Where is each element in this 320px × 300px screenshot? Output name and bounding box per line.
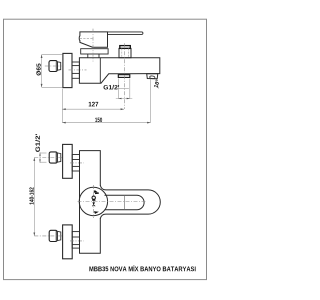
aerator outlet ellipse [150, 76, 156, 79]
label G1/2 side view [104, 85, 120, 90]
center pin arrow [92, 202, 95, 204]
diverter centerline [124, 43, 126, 109]
bottom rib centerline [70, 240, 84, 242]
dim G1/2 front ext bottom [40, 161, 47, 163]
top inlet hex nut [49, 152, 57, 163]
escutcheon flange (side) [63, 53, 72, 87]
rib line 2 [72, 72, 79, 74]
rib line 1 [72, 65, 79, 67]
bottom eccentric ribs [72, 232, 79, 249]
dim Ø65 arrows [41, 55, 43, 88]
dim 127 label [89, 102, 99, 107]
handle grip stadium [105, 195, 145, 210]
cartridge centerline vertical [92, 185, 94, 218]
knob hidden line 2 [127, 48, 129, 57]
cartridge neck right [98, 54, 100, 58]
bottom escutcheon flange [63, 225, 73, 259]
hex nut (wall union, side view) [49, 61, 57, 72]
dim G1/2 arrows [118, 98, 130, 100]
bottom inlet hex nut [49, 230, 57, 241]
dome dim arrow up [93, 190, 97, 193]
bottom nut facet [55, 231, 57, 241]
lever bar [108, 32, 143, 35]
label 10 deg [154, 79, 160, 88]
cartridge centerline [92, 29, 94, 62]
dim 140-162 label [29, 187, 33, 204]
top nut facet [55, 153, 57, 163]
grip cross line [123, 195, 125, 210]
bottom rib line 1 [72, 236, 79, 238]
dim 127 line [62, 108, 124, 110]
dim 150 label [95, 118, 102, 122]
handle hub [79, 32, 107, 47]
dim 150 line [62, 122, 150, 124]
top escutcheon flange [63, 144, 73, 178]
dim G1/2 line [116, 98, 133, 100]
bottom inlet centerline [34, 235, 62, 237]
top nut washer [57, 153, 61, 162]
dim G1/2 front arrows [39, 153, 41, 162]
cartridge dome circle [79, 187, 107, 215]
shower outlet boss G1/2 [118, 75, 130, 78]
handle centerline horizontal [78, 201, 147, 203]
diverter knob cap [120, 46, 131, 49]
handle outer shape [100, 185, 160, 218]
top rib line 1 [72, 159, 79, 161]
cartridge neck left [87, 54, 89, 58]
cartridge collar [81, 49, 108, 54]
diverter knob body [119, 48, 131, 57]
dim 127 arrows [62, 108, 124, 110]
dim 140-162 arrows [33, 158, 35, 236]
caption MBB35 NOVA MIX BANYO BATARYASI [89, 265, 195, 271]
hex nut facet line [55, 61, 57, 71]
aerator boss (10 deg) [147, 74, 158, 79]
dim Ø65 line [41, 55, 43, 88]
dim G1/2 extension left [117, 79, 119, 99]
label G1/2 front [35, 134, 40, 152]
dim G1/2 extension right [129, 79, 131, 99]
hub hidden line [80, 38, 93, 40]
top rib line 2 [72, 165, 79, 167]
body outline (side view) [79, 58, 159, 83]
body-spout joint line [99, 58, 101, 83]
knob hidden line 1 [121, 48, 123, 57]
bottom rib line 2 [72, 244, 79, 246]
nut centerline [45, 65, 62, 67]
eccentric ribs [72, 62, 79, 78]
drawing frame [4, 19, 207, 279]
body (front view) [80, 151, 101, 254]
center pin circle [92, 196, 95, 199]
washer [57, 62, 60, 70]
angle leader line [155, 79, 159, 89]
center tick mark [95, 192, 99, 194]
top inlet centerline [34, 157, 62, 159]
dim 150 arrows [62, 122, 150, 124]
dim G1/2 front ext top [40, 152, 47, 154]
dim G1/2 front line [39, 152, 41, 163]
dome dim arrow down [94, 211, 99, 214]
top rib centerline [70, 162, 84, 164]
bottom nut washer [57, 231, 61, 240]
dim 150 extension right [150, 79, 152, 123]
top eccentric ribs [72, 155, 79, 172]
inlet centerline [69, 69, 87, 71]
center pin chevron [92, 205, 95, 206]
dim Ø65 extension bottom [42, 86, 63, 88]
dim Ø65 extension top [42, 54, 63, 56]
dim Ø65 label [36, 64, 41, 76]
dim 150 extension left [61, 89, 63, 123]
G1/2 leader line [116, 87, 128, 89]
center pin bar [92, 199, 95, 200]
dim 140-162 line [33, 158, 35, 236]
